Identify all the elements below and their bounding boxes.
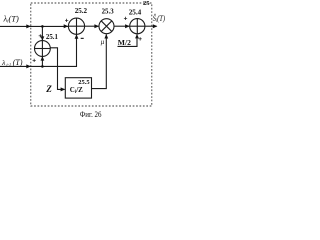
svg-text:+: + bbox=[124, 15, 128, 22]
svg-text:+: + bbox=[65, 17, 69, 24]
svg-text:λ: λ bbox=[1, 58, 6, 67]
svg-text:(T): (T) bbox=[13, 58, 23, 67]
svg-text:Ci/Z: Ci/Z bbox=[70, 86, 83, 95]
svg-text:μ: μ bbox=[101, 38, 105, 46]
svg-text:λi(T): λi(T) bbox=[3, 14, 19, 24]
svg-text:M/2: M/2 bbox=[118, 38, 131, 47]
svg-text:25.2: 25.2 bbox=[75, 7, 88, 15]
svg-text:Z: Z bbox=[45, 84, 52, 94]
svg-text:25.3: 25.3 bbox=[102, 9, 115, 16]
svg-text:+: + bbox=[32, 57, 36, 64]
svg-text:i-1: i-1 bbox=[6, 62, 11, 67]
svg-text:Фиг. 26: Фиг. 26 bbox=[80, 110, 102, 119]
svg-text:Ŝi(T): Ŝi(T) bbox=[153, 13, 165, 24]
svg-text:+: + bbox=[38, 33, 42, 40]
svg-text:25.5: 25.5 bbox=[78, 79, 90, 86]
svg-text:25.4: 25.4 bbox=[129, 8, 142, 16]
svg-text:25: 25 bbox=[143, 0, 150, 7]
svg-text:+: + bbox=[138, 36, 142, 43]
svg-text:25.1: 25.1 bbox=[46, 34, 59, 41]
